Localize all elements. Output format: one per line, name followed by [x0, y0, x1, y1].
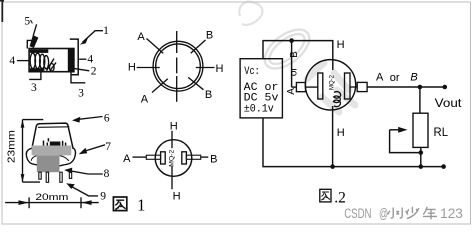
svg-text:Vout: Vout [435, 98, 463, 110]
glyph nian [423, 207, 437, 219]
electrode plate left [161, 152, 166, 164]
wire top rail [262, 40, 332, 42]
svg-text:B: B [206, 30, 213, 42]
wire RL bottom [420, 147, 422, 166]
node top junction [289, 38, 294, 43]
pin NW [147, 39, 164, 54]
svg-text:H: H [216, 63, 224, 75]
wire Vc bottom [262, 118, 264, 167]
pin center dash [176, 58, 178, 74]
lead A [133, 156, 147, 158]
electrode plate right [182, 152, 187, 164]
label A or B vertical [286, 51, 300, 95]
left bracket [27, 40, 36, 48]
label 4 left [9, 55, 29, 67]
svg-text:MQ-2: MQ-2 [329, 75, 336, 90]
svg-text:3: 3 [31, 82, 37, 94]
svg-text:20mm: 20mm [35, 192, 68, 203]
svg-text:1: 1 [137, 196, 145, 215]
symbol circle [155, 140, 192, 177]
svg-text:123: 123 [440, 206, 463, 221]
label 7 [79, 141, 112, 154]
watermark ellipse [258, 22, 316, 76]
electrode bar (2) [68, 48, 74, 72]
heater coil [333, 92, 340, 107]
source box Vc [240, 59, 282, 118]
svg-text:9: 9 [100, 191, 106, 203]
svg-text:±0.1v: ±0.1v [244, 103, 274, 115]
label 4 right [79, 54, 93, 66]
svg-text:@: @ [379, 206, 388, 221]
svg-text:A: A [137, 31, 145, 43]
dim 20mm [5, 192, 99, 208]
pin 1 [39, 172, 41, 179]
tube body outline [29, 49, 74, 72]
glyph xiao 2 [397, 208, 408, 218]
node Vout junction [418, 85, 423, 90]
pinout outer circle [153, 41, 203, 91]
svg-text:B: B [410, 71, 417, 83]
lead box to plate [306, 86, 318, 88]
terminal box A [146, 155, 160, 159]
svg-text:A: A [376, 71, 384, 83]
node rail end [441, 164, 446, 169]
pin SW [152, 79, 168, 93]
svg-text:B: B [210, 154, 217, 166]
electrode plate right [345, 73, 351, 99]
svg-text:.2: .2 [334, 190, 346, 207]
glyph xiao [388, 208, 399, 219]
watermark script curve top [239, 2, 262, 25]
pin N [176, 31, 178, 53]
svg-text:or: or [390, 72, 400, 84]
svg-text:H: H [170, 121, 178, 133]
svg-text:B: B [205, 89, 212, 101]
svg-text:H: H [337, 127, 345, 139]
label 8 [64, 168, 109, 180]
base block [37, 155, 60, 172]
svg-text:MQ-2: MQ-2 [168, 149, 175, 166]
svg-text:Vc:: Vc: [244, 66, 259, 78]
pinout inner circle [156, 44, 201, 89]
node wiper tie [419, 150, 424, 155]
lead B [201, 156, 209, 158]
electrode plate left [318, 73, 323, 99]
svg-text:4: 4 [9, 55, 15, 67]
wire sensor H bottom [332, 106, 334, 167]
label 6 [72, 113, 110, 125]
lead plate to box [350, 86, 357, 88]
terminal box right [357, 82, 367, 91]
wire A-or-B drop [291, 41, 293, 88]
wire H drop to sensor [332, 40, 334, 70]
caption FIG2 glyph 图 [320, 189, 331, 202]
dome internal electrodes [44, 138, 66, 148]
wire right rail [367, 86, 445, 88]
sensor circle [305, 60, 355, 110]
terminal box left [296, 83, 305, 92]
lead H top [171, 131, 173, 148]
svg-text:A: A [286, 88, 297, 95]
svg-text:RL: RL [434, 125, 449, 139]
wire Vc top [262, 41, 264, 59]
wire into left terminal [292, 86, 297, 88]
pin SE [188, 77, 203, 89]
metal band [32, 146, 72, 156]
svg-text:B: B [289, 51, 300, 58]
svg-text:H: H [173, 190, 181, 202]
lead 3 right [71, 72, 85, 100]
svg-text:6: 6 [104, 113, 110, 125]
dome inner top line [38, 126, 69, 129]
label 5 [24, 15, 38, 48]
label 2 [74, 65, 96, 77]
svg-text:H: H [337, 39, 345, 51]
svg-text:5: 5 [24, 15, 30, 27]
svg-text:8: 8 [104, 168, 110, 180]
pin 3 [60, 172, 62, 182]
label 1 [80, 25, 109, 45]
svg-text:4: 4 [87, 54, 93, 66]
label 9 [66, 183, 106, 202]
CSDN watermark text [344, 206, 463, 221]
svg-text:1: 1 [103, 25, 109, 37]
lead 3 left [29, 72, 41, 95]
lead H bottom [171, 166, 173, 189]
svg-text:A: A [141, 93, 149, 105]
wiper arrow [390, 127, 408, 133]
pin NE [191, 40, 206, 53]
wire bottom rail [262, 166, 443, 168]
base cushion outline [26, 148, 75, 166]
dome outline [32, 123, 73, 149]
glyph shao [407, 207, 419, 219]
svg-text:23mm: 23mm [7, 130, 18, 163]
caption FIG1 glyph 图 [113, 197, 126, 211]
end cap bracket (1) [70, 39, 78, 75]
cushion face curves [31, 156, 69, 161]
svg-text:3: 3 [78, 87, 84, 99]
svg-text:7: 7 [105, 141, 111, 153]
terminal box B [186, 155, 200, 159]
node H rail [330, 164, 335, 169]
wire junction to RL [419, 87, 421, 113]
heater coil hatch [30, 49, 56, 71]
source text [244, 66, 279, 115]
resistor RL [413, 113, 428, 147]
pin S [176, 76, 178, 102]
dim 23mm [7, 120, 44, 183]
node right end [443, 85, 448, 90]
node RL rail [419, 164, 424, 169]
pin E [196, 67, 215, 69]
svg-text:or: or [288, 67, 299, 77]
svg-text:CSDN: CSDN [344, 206, 371, 221]
svg-text:2: 2 [91, 65, 97, 77]
pin 4 [69, 172, 71, 178]
wiper tail [390, 130, 421, 153]
watermark diagonal strokes [307, 63, 355, 112]
svg-text:H: H [128, 62, 136, 74]
pin 2 [46, 172, 48, 182]
pin W [137, 67, 160, 69]
svg-text:A: A [123, 153, 131, 165]
